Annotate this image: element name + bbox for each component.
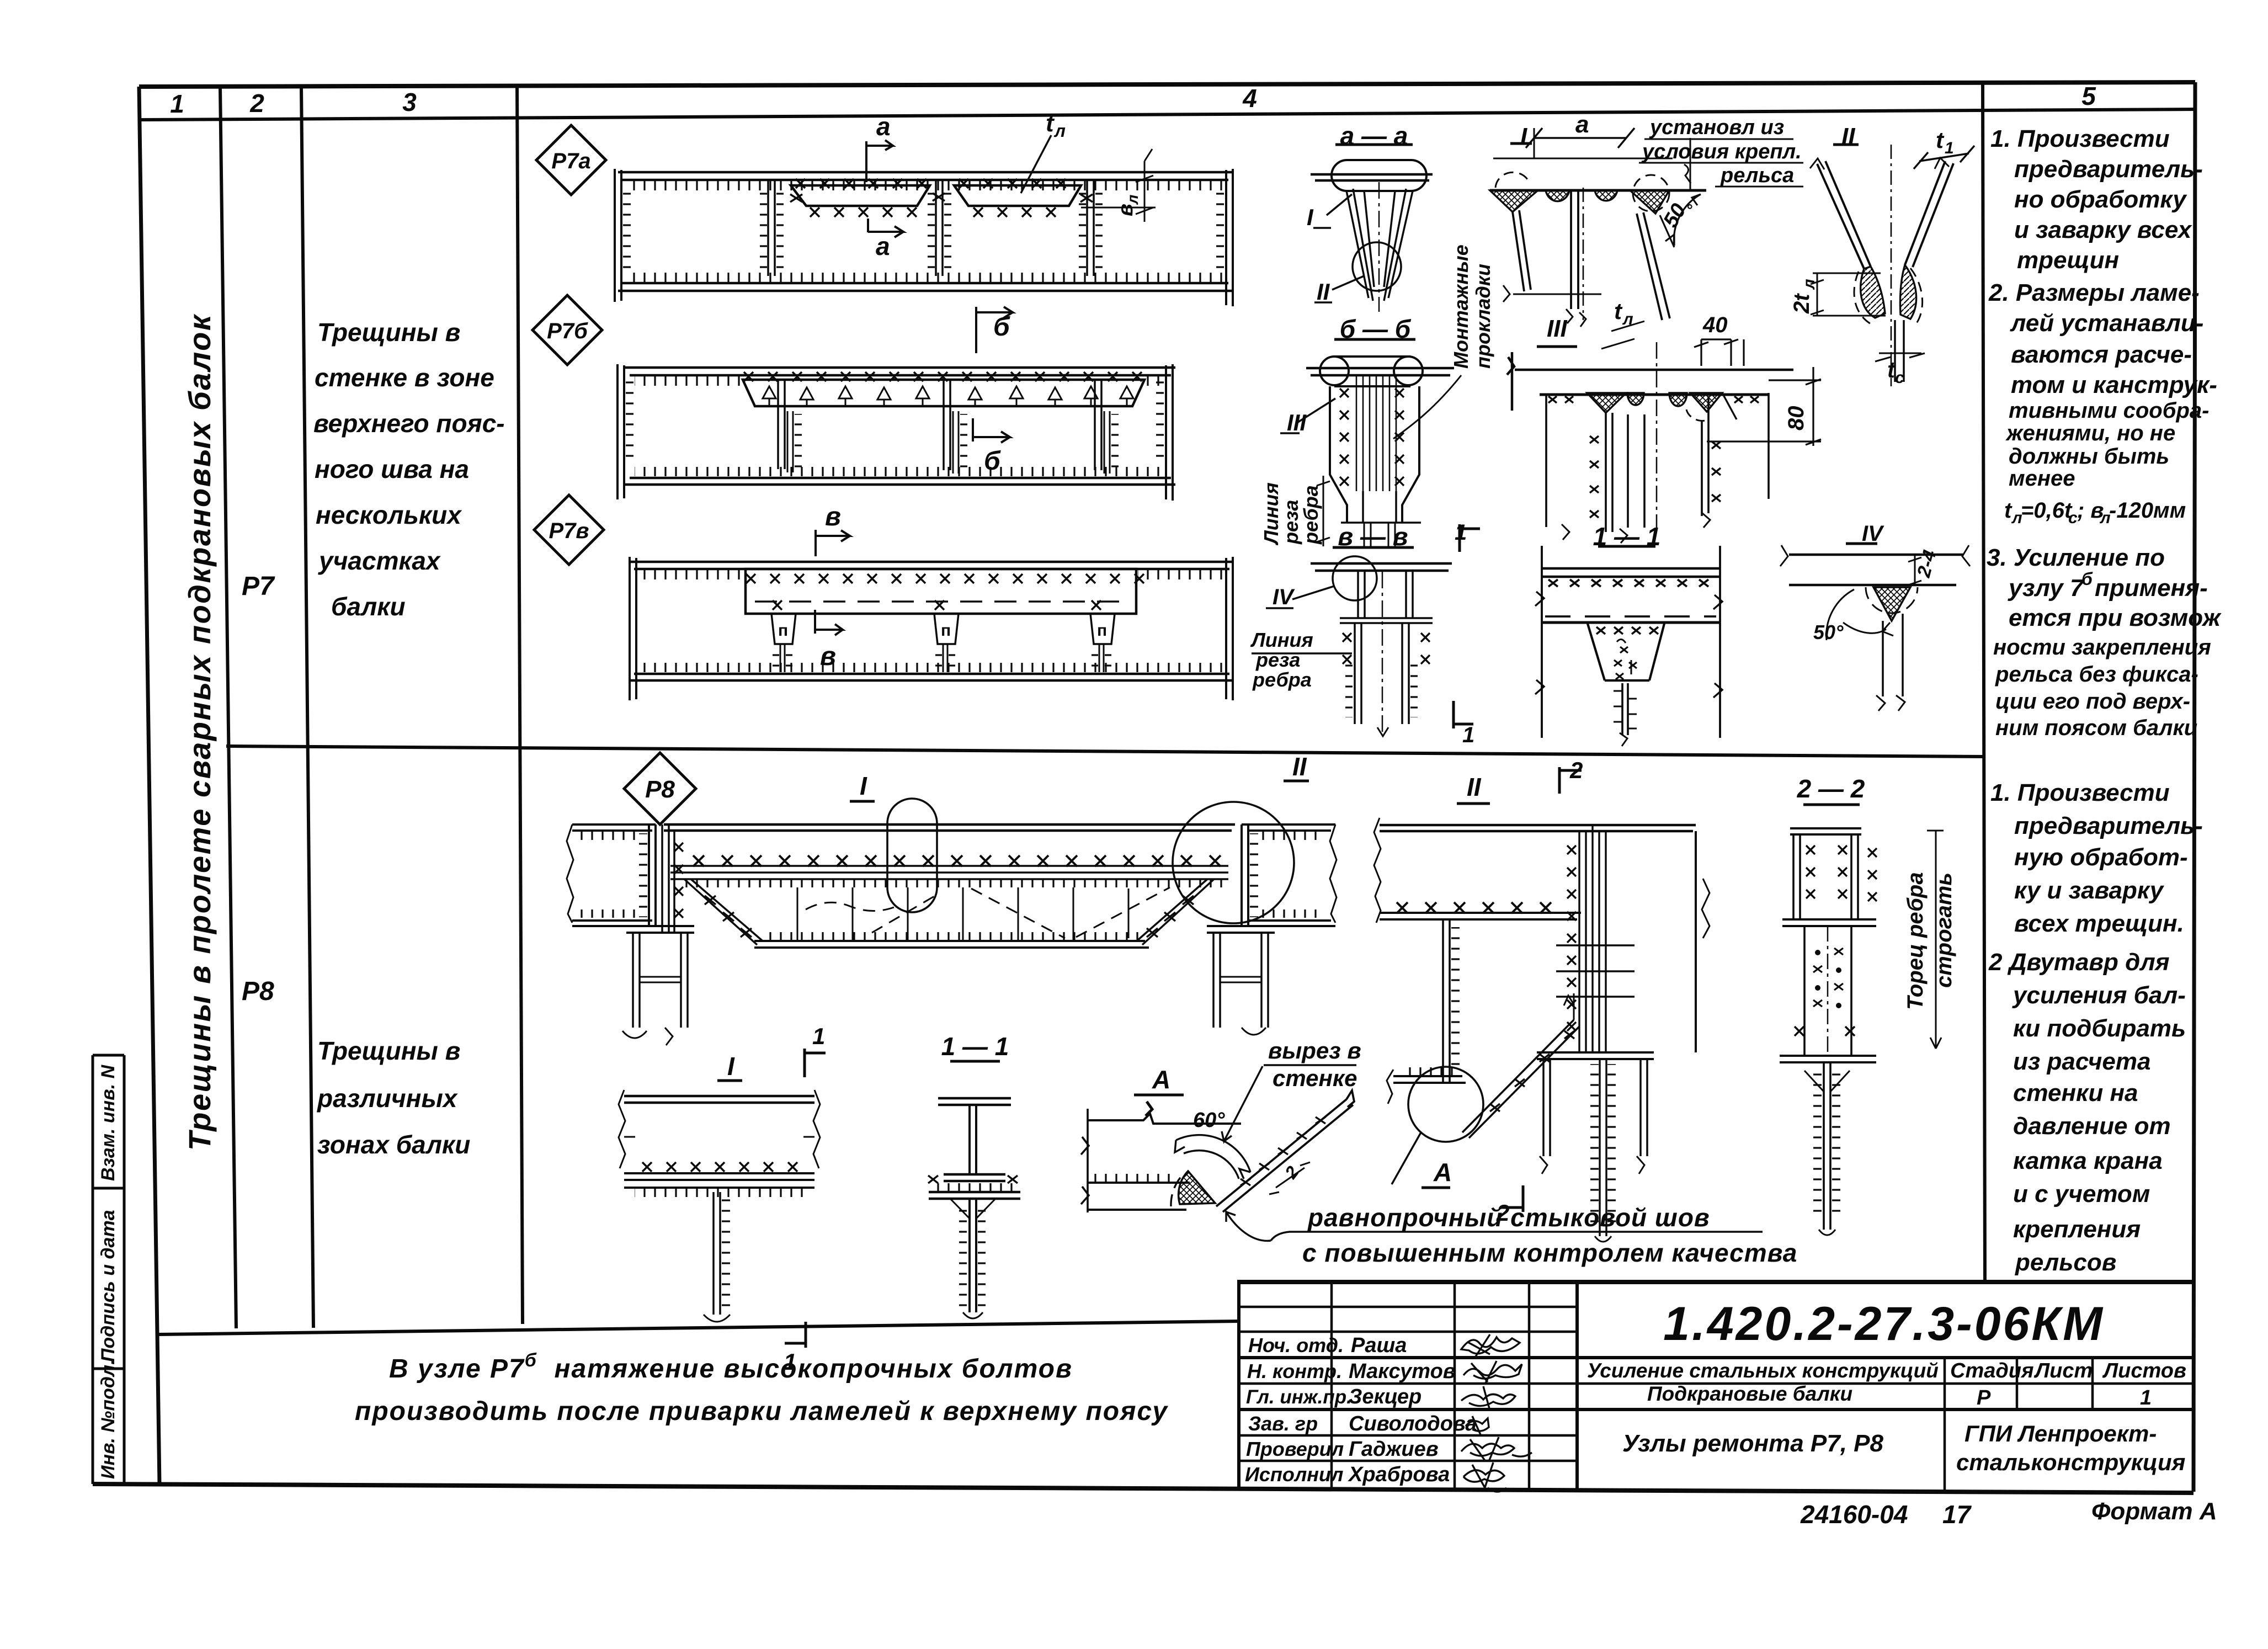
svg-text:л: л (1800, 279, 1818, 290)
svg-text:1: 1 (1945, 139, 1954, 157)
svg-text:п: п (1097, 621, 1107, 640)
svg-text:Зав. гр: Зав. гр (1248, 1412, 1318, 1435)
svg-text:Формат А: Формат А (2091, 1498, 2217, 1525)
svg-text:п: п (941, 621, 951, 640)
svg-text:Раша: Раша (1351, 1334, 1407, 1357)
svg-text:и заварку всех: и заварку всех (2014, 216, 2192, 243)
svg-text:1. Произвести: 1. Произвести (1990, 779, 2170, 806)
svg-text:Трещины в пролете сварных: Трещины в пролете сварных подкрановых ба… (182, 313, 217, 1151)
svg-text:участках: участках (318, 546, 441, 575)
svg-text:a: a (876, 232, 890, 260)
svg-text:Проверил: Проверил (1246, 1438, 1344, 1460)
svg-text:3. Усиление по: 3. Усиление по (1987, 544, 2165, 571)
svg-text:1 — 1: 1 — 1 (941, 1032, 1009, 1061)
svg-text:80: 80 (1784, 406, 1808, 431)
svg-text:стенке: стенке (1273, 1065, 1357, 1091)
svg-text:40: 40 (1702, 313, 1728, 337)
svg-text:I: I (1520, 123, 1527, 150)
svg-text:рельса: рельса (1720, 164, 1794, 187)
svg-text:ваются расче-: ваются расче- (2011, 341, 2192, 368)
svg-text:Максутов: Максутов (1349, 1360, 1456, 1383)
svg-text:Р7а: Р7а (551, 149, 590, 173)
svg-text:ГПИ Ленпроект-: ГПИ Ленпроект- (1964, 1421, 2157, 1446)
svg-text:Сиволодова: Сиволодова (1349, 1412, 1477, 1435)
svg-text:Исполнил: Исполнил (1245, 1463, 1343, 1486)
svg-text:t: t (1046, 110, 1055, 137)
svg-text:4: 4 (1242, 84, 1257, 113)
svg-text:л: л (1124, 195, 1141, 205)
svg-text:реза: реза (1280, 500, 1302, 545)
svg-text:3: 3 (402, 88, 417, 116)
svg-text:Трещины в: Трещины в (317, 318, 460, 347)
svg-text:Гл. инж.пр.: Гл. инж.пр. (1246, 1386, 1352, 1408)
svg-text:Линия: Линия (1260, 482, 1282, 546)
svg-text:ного шва на: ного шва на (315, 455, 469, 483)
svg-text:50°: 50° (1813, 621, 1844, 643)
svg-text:Подпись и дата: Подпись и дата (98, 1210, 119, 1362)
svg-text:Трещины в: Трещины в (317, 1036, 460, 1065)
svg-text:ним поясом балки: ним поясом балки (1995, 716, 2197, 740)
svg-text:ции его под верх-: ции его под верх- (1995, 689, 2190, 714)
svg-text:А: А (1433, 1158, 1452, 1187)
svg-text:реза: реза (1255, 648, 1300, 671)
svg-text:различных: различных (316, 1084, 459, 1113)
svg-text:стальконструкция: стальконструкция (1956, 1449, 2185, 1475)
svg-text:катка крана: катка крана (2013, 1147, 2163, 1174)
svg-text:менее: менее (2009, 466, 2075, 491)
svg-text:1: 1 (812, 1023, 825, 1049)
svg-text:III: III (1547, 315, 1567, 342)
svg-text:должны быть: должны быть (2009, 444, 2169, 469)
svg-text:ную обработ-: ную обработ- (2014, 844, 2188, 871)
svg-text:л: л (1622, 310, 1633, 328)
svg-text:верхнего пояс-: верхнего пояс- (313, 409, 505, 438)
svg-text:2: 2 (249, 89, 264, 118)
svg-text:условия крепл.: условия крепл. (1641, 140, 1802, 163)
svg-text:трещин: трещин (2017, 247, 2119, 274)
svg-text:всех трещин.: всех трещин. (2014, 910, 2184, 937)
svg-text:узлу 7: узлу 7 (2008, 575, 2085, 602)
svg-text:II: II (1841, 123, 1855, 150)
svg-text:2 — 2: 2 — 2 (1797, 774, 1865, 803)
svg-text:стенке в зоне: стенке в зоне (315, 363, 494, 392)
svg-text:б — б: б — б (1340, 315, 1412, 343)
svg-text:I: I (860, 772, 867, 800)
svg-text:-120мм: -120мм (2109, 498, 2186, 523)
svg-text:a: a (876, 112, 891, 141)
svg-text:1: 1 (2140, 1386, 2152, 1409)
svg-text:Гаджиев: Гаджиев (1349, 1438, 1439, 1461)
svg-text:стенки на: стенки на (2013, 1079, 2138, 1107)
svg-text:Р7б: Р7б (547, 319, 588, 343)
svg-text:Зекцер: Зекцер (1349, 1385, 1422, 1408)
svg-text:прокладки: прокладки (1472, 264, 1494, 369)
svg-text:IV: IV (1862, 522, 1884, 546)
svg-text:I: I (727, 1052, 735, 1081)
svg-text:IV: IV (1273, 585, 1295, 609)
svg-text:строгать: строгать (1932, 873, 1956, 988)
svg-text:II: II (1292, 752, 1307, 781)
svg-text:t: t (2004, 498, 2013, 523)
svg-text:нескольких: нескольких (316, 501, 462, 529)
svg-text:ется при возмож: ется при возмож (2009, 604, 2222, 631)
svg-text:Подкрановые балки: Подкрановые балки (1647, 1382, 1852, 1405)
svg-text:жениями, но не: жениями, но не (2005, 421, 2175, 445)
svg-text:Монтажные: Монтажные (1450, 244, 1472, 369)
svg-text:зонах балки: зонах балки (317, 1130, 470, 1159)
svg-text:б: б (984, 446, 1001, 476)
svg-text:60°: 60° (1193, 1109, 1225, 1132)
svg-text:в — в: в — в (1338, 522, 1408, 551)
svg-text:Линия: Линия (1250, 629, 1313, 651)
svg-text:2: 2 (1281, 1162, 1303, 1183)
svg-text:установл из: установл из (1649, 116, 1784, 139)
svg-text:том и канструк-: том и канструк- (2011, 371, 2217, 398)
svg-text:с повышенным контролем каче: с повышенным контролем качества (1302, 1238, 1797, 1267)
svg-text:Р7: Р7 (242, 572, 275, 601)
svg-text:предваритель-: предваритель- (2014, 812, 2203, 839)
svg-text:24160-04: 24160-04 (1800, 1500, 1908, 1529)
svg-text:1.420.2-27.3-06КМ: 1.420.2-27.3-06КМ (1663, 1297, 2105, 1350)
svg-text:2t: 2t (1790, 293, 1814, 314)
svg-text:ребра: ребра (1252, 668, 1312, 691)
svg-text:А: А (1152, 1065, 1170, 1094)
svg-text:1: 1 (1455, 520, 1467, 545)
svg-text:ности закрепления: ности закрепления (1993, 635, 2211, 659)
svg-text:ребра: ребра (1300, 485, 1322, 545)
svg-text:17: 17 (1942, 1500, 1972, 1529)
svg-text:лей устанавли-: лей устанавли- (2010, 310, 2203, 337)
svg-text:крепления: крепления (2013, 1216, 2141, 1243)
svg-text:ку и заварку: ку и заварку (2014, 877, 2165, 904)
svg-text:предваритель-: предваритель- (2014, 156, 2203, 183)
svg-text:2: 2 (1496, 1200, 1509, 1226)
svg-text:t: t (1936, 127, 1945, 153)
svg-text:Ноч. отд.: Ноч. отд. (1248, 1334, 1344, 1357)
svg-text:Стадия: Стадия (1950, 1359, 2033, 1382)
svg-text:и с учетом: и с учетом (2013, 1180, 2150, 1208)
svg-text:Узлы ремонта Р7, Р8: Узлы ремонта Р7, Р8 (1622, 1430, 1884, 1457)
svg-text:в: в (820, 642, 836, 671)
svg-text:из расчета: из расчета (2013, 1048, 2150, 1075)
svg-text:1 — 1: 1 — 1 (1593, 522, 1661, 551)
svg-text:Торец ребра: Торец ребра (1903, 872, 1928, 1010)
svg-text:2. Размеры ламе-: 2. Размеры ламе- (1988, 279, 2200, 306)
svg-text:a: a (1575, 111, 1589, 138)
svg-text:Р7в: Р7в (549, 519, 589, 543)
svg-text:Лист: Лист (2033, 1359, 2093, 1382)
svg-text:=0,6t: =0,6t (2021, 498, 2073, 523)
svg-text:II: II (1467, 773, 1482, 801)
svg-text:Р: Р (1977, 1386, 1991, 1409)
svg-text:II: II (1317, 279, 1330, 305)
svg-text:в: в (825, 502, 841, 531)
svg-text:5: 5 (2081, 82, 2096, 110)
svg-text:балки: балки (331, 592, 406, 621)
svg-text:в: в (1114, 204, 1137, 216)
svg-text:Р8: Р8 (242, 977, 274, 1006)
svg-text:усиления бал-: усиления бал- (2012, 982, 2186, 1009)
svg-text:1: 1 (170, 89, 184, 118)
svg-text:I: I (1307, 204, 1314, 230)
svg-text:t: t (1614, 298, 1623, 324)
svg-text:1. Произвести: 1. Произвести (1990, 125, 2170, 152)
svg-text:В узле Р7б натяжение высок: В узле Р7б натяжение высокопрочных болто… (389, 1350, 1073, 1384)
svg-text:рельсов: рельсов (2015, 1249, 2116, 1276)
svg-text:Взам. инв. N: Взам. инв. N (98, 1064, 119, 1181)
svg-text:а — а: а — а (1340, 121, 1408, 150)
svg-text:с: с (1895, 369, 1904, 387)
svg-text:III: III (1287, 409, 1307, 435)
svg-text:тивными сообра-: тивными сообра- (2009, 398, 2210, 423)
svg-text:2 Двутавр для: 2 Двутавр для (1988, 949, 2170, 976)
svg-text:б: б (2081, 569, 2093, 589)
svg-text:Усиление стальных конструкци: Усиление стальных конструкций (1587, 1359, 1939, 1382)
svg-text:ки подбирать: ки подбирать (2013, 1015, 2186, 1042)
svg-text:2: 2 (1569, 757, 1583, 783)
svg-text:с: с (2068, 509, 2078, 527)
svg-text:давление от: давление от (2013, 1113, 2171, 1140)
svg-text:применя-: применя- (2095, 575, 2208, 602)
svg-text:Н. контр.: Н. контр. (1247, 1360, 1342, 1382)
svg-text:рельса без фикса-: рельса без фикса- (1995, 662, 2198, 687)
svg-text:л: л (1053, 121, 1066, 141)
svg-text:производить после приварки: производить после приварки ламелей к вер… (355, 1397, 1168, 1426)
svg-text:б: б (993, 312, 1010, 342)
svg-text:2-4: 2-4 (1913, 548, 1941, 580)
svg-text:но обработку: но обработку (2014, 186, 2187, 213)
svg-text:Р8: Р8 (645, 776, 675, 803)
svg-text:1: 1 (1462, 723, 1474, 747)
svg-text:Листов: Листов (2102, 1359, 2186, 1382)
svg-text:Инв. №подл.: Инв. №подл. (98, 1359, 119, 1479)
svg-text:вырез в: вырез в (1268, 1038, 1361, 1063)
svg-text:Храброва: Храброва (1348, 1463, 1450, 1486)
svg-text:п: п (778, 621, 788, 640)
